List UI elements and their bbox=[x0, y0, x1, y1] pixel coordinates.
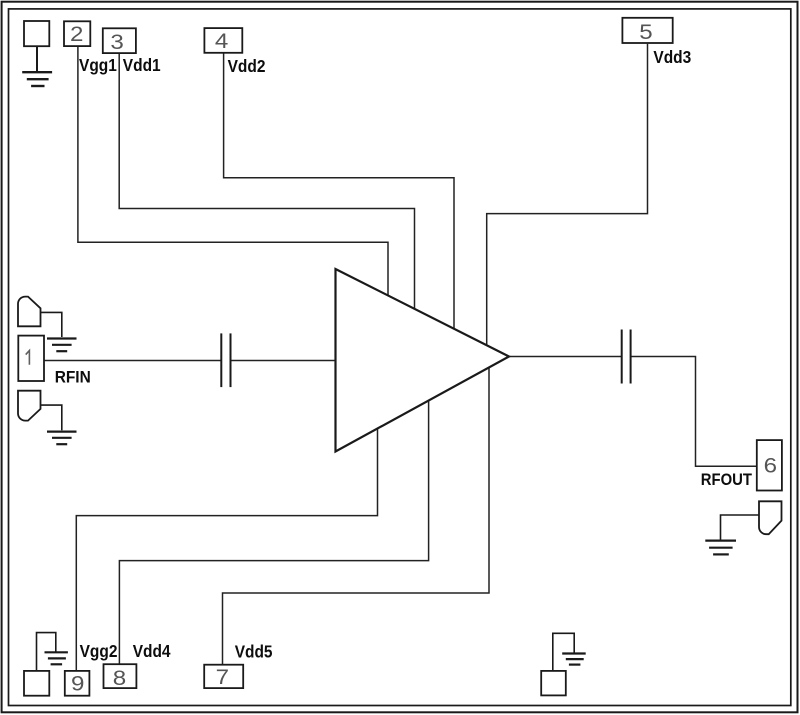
svg-text:8: 8 bbox=[113, 666, 126, 689]
svg-text:Vdd5: Vdd5 bbox=[235, 642, 273, 662]
svg-text:Vgg1: Vgg1 bbox=[79, 55, 117, 75]
svg-text:Vdd1: Vdd1 bbox=[123, 55, 161, 75]
svg-text:5: 5 bbox=[639, 20, 652, 43]
svg-text:Vdd2: Vdd2 bbox=[228, 56, 266, 76]
svg-text:2: 2 bbox=[70, 22, 83, 45]
svg-text:9: 9 bbox=[71, 672, 84, 695]
svg-text:Vgg2: Vgg2 bbox=[80, 641, 118, 661]
svg-text:4: 4 bbox=[215, 30, 228, 53]
svg-text:3: 3 bbox=[110, 30, 123, 53]
svg-text:Vdd4: Vdd4 bbox=[133, 641, 172, 661]
svg-text:RFOUT: RFOUT bbox=[701, 471, 752, 489]
svg-text:RFIN: RFIN bbox=[55, 369, 91, 386]
svg-text:Vdd3: Vdd3 bbox=[653, 47, 691, 67]
svg-text:6: 6 bbox=[764, 454, 777, 477]
svg-text:7: 7 bbox=[216, 665, 229, 688]
